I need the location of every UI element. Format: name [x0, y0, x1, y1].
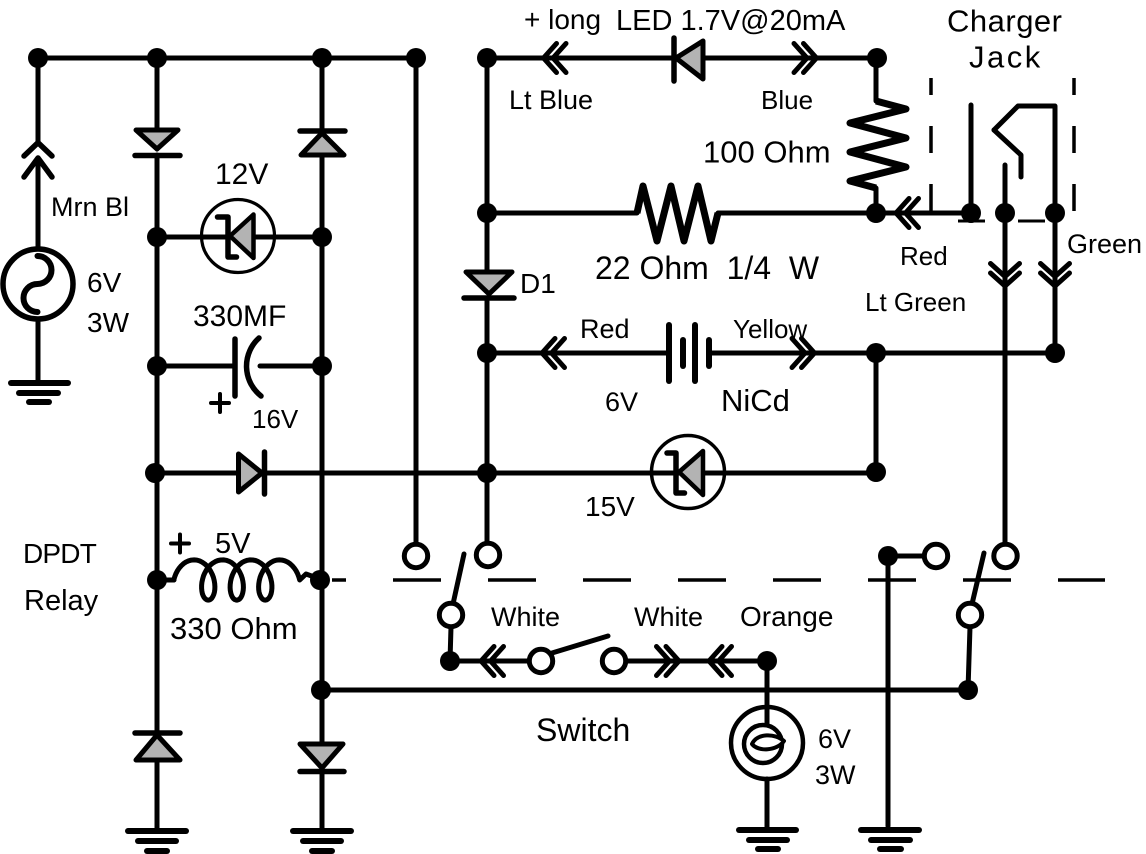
svg-text:12V: 12V	[215, 158, 268, 191]
svg-text:Red: Red	[900, 241, 948, 271]
svg-text:Red: Red	[580, 314, 630, 344]
svg-text:DPDT: DPDT	[23, 538, 97, 569]
svg-text:22 Ohm 1/4 W: 22 Ohm 1/4 W	[595, 250, 820, 286]
svg-text:Switch: Switch	[536, 712, 630, 748]
svg-text:White: White	[634, 602, 703, 632]
svg-text:White: White	[491, 602, 560, 632]
svg-text:5V: 5V	[215, 528, 251, 560]
svg-text:6V: 6V	[605, 387, 638, 417]
svg-text:15V: 15V	[585, 491, 635, 522]
svg-text:Yellow: Yellow	[733, 314, 807, 344]
svg-text:D1: D1	[520, 268, 556, 299]
svg-text:6V: 6V	[87, 267, 122, 298]
svg-text:3W: 3W	[87, 307, 130, 338]
svg-text:Charger: Charger	[947, 4, 1063, 39]
svg-text:16V: 16V	[252, 404, 299, 434]
svg-text:Blue: Blue	[761, 85, 813, 115]
svg-text:NiCd: NiCd	[721, 383, 790, 418]
svg-text:330MF: 330MF	[193, 300, 286, 333]
svg-text:Lt Blue: Lt Blue	[509, 85, 593, 115]
svg-text:100 Ohm: 100 Ohm	[703, 135, 831, 170]
svg-text:Orange: Orange	[740, 601, 833, 632]
svg-text:Green: Green	[1067, 229, 1142, 259]
svg-text:Relay: Relay	[24, 585, 99, 617]
svg-text:Mrn Bl: Mrn Bl	[51, 192, 129, 222]
svg-text:330 Ohm: 330 Ohm	[170, 611, 298, 646]
svg-text:LED 1.7V@20mA: LED 1.7V@20mA	[616, 5, 846, 37]
svg-text:6V: 6V	[818, 724, 851, 754]
svg-text:Jack: Jack	[969, 40, 1043, 75]
svg-text:+ long: + long	[524, 4, 601, 35]
svg-text:3W: 3W	[815, 760, 856, 790]
svg-text:Lt Green: Lt Green	[865, 287, 966, 317]
